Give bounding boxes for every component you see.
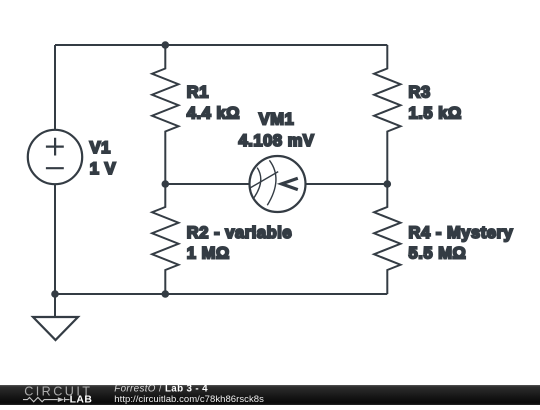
svg-text:R3: R3	[409, 84, 431, 102]
wire middle left	[165, 183, 249, 185]
value 1.5 kΩ	[409, 104, 462, 122]
resistor R4	[374, 184, 400, 294]
svg-text:1 MΩ: 1 MΩ	[187, 245, 230, 263]
svg-text:http://circuitlab.com/c78kh86r: http://circuitlab.com/c78kh86rsck8s	[114, 394, 264, 405]
svg-text:V1: V1	[90, 139, 111, 157]
svg-text:4.108 mV: 4.108 mV	[239, 132, 315, 150]
resistor R3	[374, 45, 400, 184]
logo schematic squiggle (resistor + diode)	[23, 397, 70, 402]
resistor R2	[152, 184, 178, 294]
label VM1	[259, 110, 295, 128]
svg-text:R4 - Mystery: R4 - Mystery	[409, 224, 514, 242]
wire left (V1 top lead)	[54, 45, 56, 130]
svg-text:1.5 kΩ: 1.5 kΩ	[409, 104, 462, 122]
CircuitLab logo wordmark CIRCUIT	[24, 384, 92, 398]
value 1 V	[90, 160, 116, 178]
label R1	[187, 84, 209, 102]
wire V1 bottom lead	[54, 184, 56, 294]
node junction ground-mid (R2/bottom net)	[162, 290, 170, 298]
svg-text:4.4 kΩ: 4.4 kΩ	[187, 104, 240, 122]
CircuitLab logo wordmark LAB	[70, 395, 93, 406]
node junction top (R1/top net)	[162, 41, 170, 49]
value 4.108 mV	[239, 132, 315, 150]
label R4 - Mystery	[409, 224, 514, 242]
value 5.5 MΩ	[409, 245, 467, 263]
ground	[33, 294, 78, 340]
footer author / title	[114, 384, 208, 395]
footer bar	[0, 385, 540, 405]
label R3	[409, 84, 431, 102]
label R2 - variable	[187, 224, 292, 242]
voltage source V1	[28, 130, 82, 184]
resistor R1	[152, 45, 178, 184]
wire middle right	[306, 183, 387, 185]
node junction mid-right (R3/R4/VM1)	[384, 180, 392, 188]
svg-text:VM1: VM1	[259, 110, 295, 128]
wire bottom net	[55, 293, 387, 295]
node junction ground-left (V1/ground)	[51, 290, 59, 298]
svg-text:R2 - variable: R2 - variable	[187, 224, 292, 242]
voltmeter VM1	[250, 156, 306, 212]
node junction mid-left (R1/R2/VM1)	[162, 180, 170, 188]
value 4.4 kΩ	[187, 104, 240, 122]
svg-text:1 V: 1 V	[90, 160, 116, 178]
svg-text:5.5 MΩ: 5.5 MΩ	[409, 245, 467, 263]
value 1 MΩ	[187, 245, 230, 263]
label V1	[90, 139, 111, 157]
svg-text:LAB: LAB	[70, 395, 93, 405]
footer url	[114, 394, 264, 405]
wire top net	[55, 44, 387, 46]
svg-text:R1: R1	[187, 84, 209, 102]
